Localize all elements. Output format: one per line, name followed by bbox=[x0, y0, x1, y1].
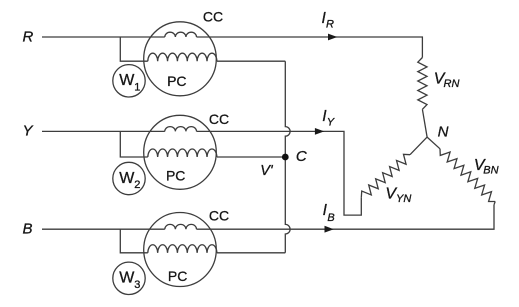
svg-text:CC: CC bbox=[203, 9, 223, 25]
svg-text:CC: CC bbox=[209, 111, 229, 127]
svg-text:B: B bbox=[23, 220, 33, 237]
svg-text:B: B bbox=[327, 212, 334, 224]
svg-text:1: 1 bbox=[134, 81, 140, 93]
svg-text:2: 2 bbox=[134, 179, 140, 191]
svg-text:BN: BN bbox=[483, 164, 498, 176]
svg-text:3: 3 bbox=[134, 279, 140, 291]
svg-text:RN: RN bbox=[444, 78, 460, 90]
svg-text:C: C bbox=[296, 148, 307, 165]
svg-text:W: W bbox=[119, 170, 135, 187]
svg-text:R: R bbox=[326, 19, 334, 31]
svg-text:W: W bbox=[119, 270, 135, 287]
svg-text:V': V' bbox=[260, 163, 274, 179]
svg-text:YN: YN bbox=[396, 193, 411, 205]
svg-text:Y: Y bbox=[327, 116, 335, 128]
svg-text:PC: PC bbox=[167, 73, 186, 89]
svg-text:W: W bbox=[119, 72, 135, 89]
svg-text:Y: Y bbox=[23, 123, 34, 140]
svg-text:R: R bbox=[23, 29, 34, 46]
svg-text:PC: PC bbox=[168, 268, 187, 284]
svg-text:N: N bbox=[438, 124, 449, 141]
svg-text:PC: PC bbox=[166, 168, 185, 184]
svg-text:CC: CC bbox=[209, 207, 229, 223]
